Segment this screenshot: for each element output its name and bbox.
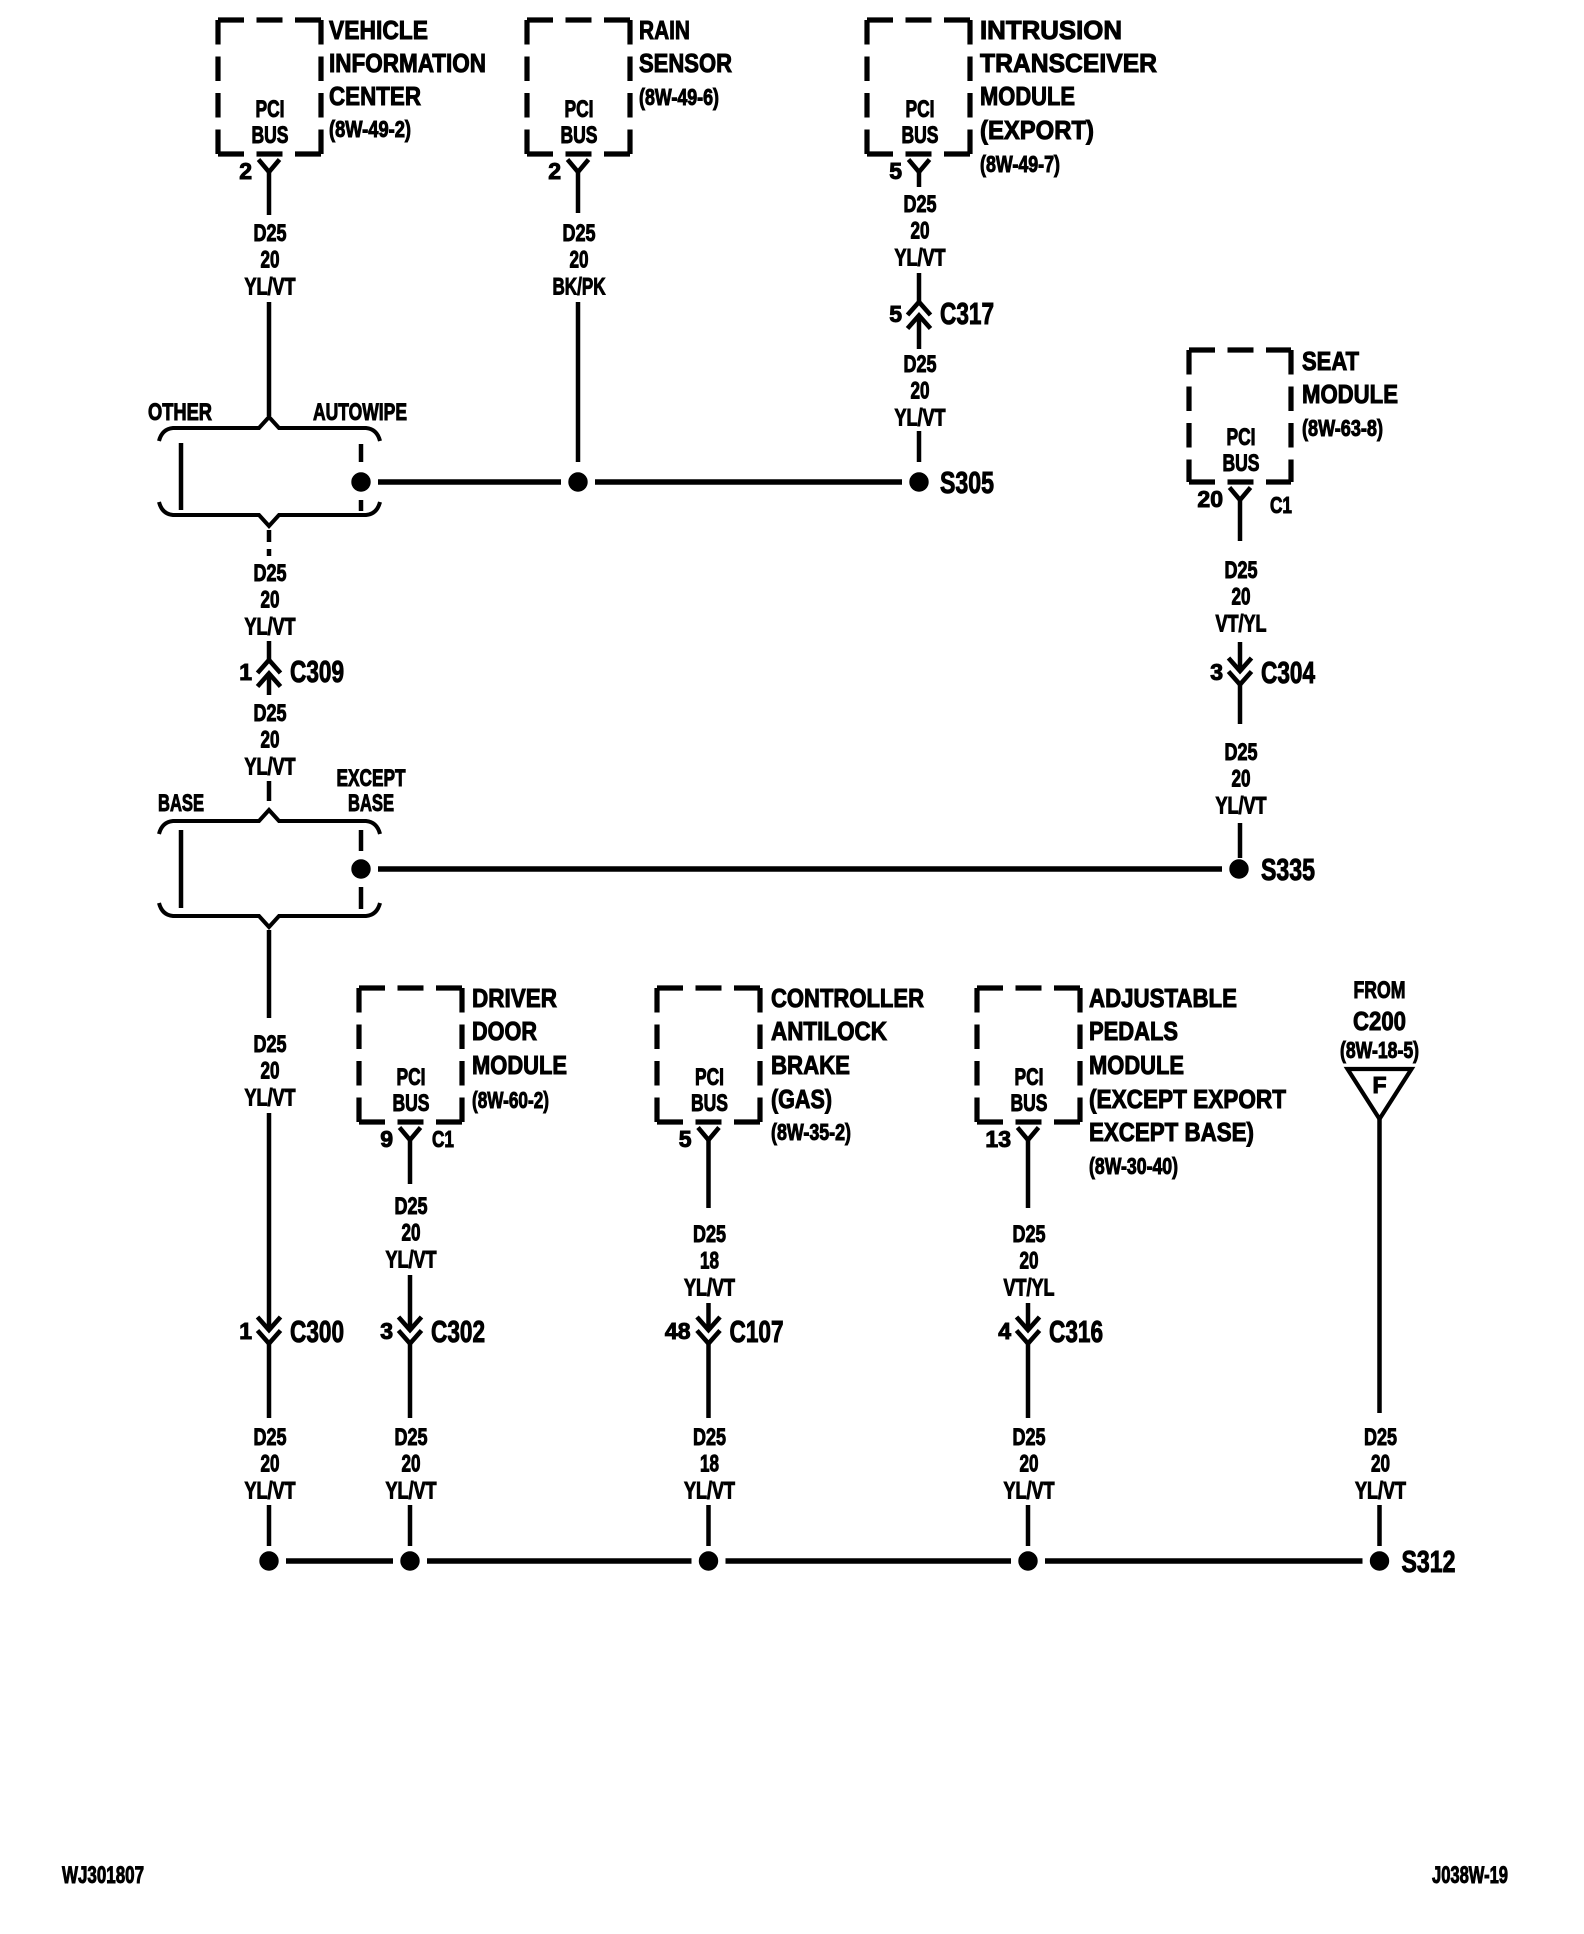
module U6 CONTROLLER ANTILOCK BRAKE (GAS) (8W-35-2) box with PCI BUS (657, 983, 924, 1145)
svg-text:C107: C107 (730, 1314, 784, 1349)
wire label D25 20 VT/YL (above C304) (1216, 557, 1267, 637)
connector Y at U1 pin 2 (259, 160, 280, 173)
svg-text:PCI: PCI (1227, 424, 1256, 451)
svg-text:D25: D25 (254, 700, 287, 727)
svg-text:PCI: PCI (695, 1064, 724, 1091)
svg-text:13: 13 (985, 1126, 1011, 1152)
svg-text:D25: D25 (254, 220, 287, 247)
brace (options split) BASE/EXCEPT BASE top (159, 810, 380, 834)
svg-text:RAIN: RAIN (639, 15, 690, 45)
wire label D25 20 YL/VT (col A bottom) (245, 1424, 296, 1504)
junction dot rain sensor at S305 (569, 473, 587, 491)
module U7 ADJUSTABLE PEDALS MODULE (EXCEPT EXPORT EXCEPT BASE) (8W-30-40) box with PCI BUS (977, 983, 1286, 1179)
wire label D25 20 YL/VT (col A top) (245, 220, 296, 300)
svg-text:MODULE: MODULE (472, 1050, 567, 1080)
wire label D25 20 YL/VT (col E bottom) (386, 1424, 437, 1504)
svg-text:20: 20 (402, 1451, 421, 1478)
svg-text:DOOR: DOOR (472, 1016, 537, 1046)
svg-text:FROM: FROM (1354, 977, 1406, 1004)
svg-text:20: 20 (1020, 1451, 1039, 1478)
svg-text:D25: D25 (904, 191, 937, 218)
wire BASE branch (179, 830, 184, 908)
svg-text:PEDALS: PEDALS (1089, 1016, 1178, 1046)
svg-text:PCI: PCI (397, 1064, 426, 1091)
wire stem from U4 (1238, 500, 1243, 541)
svg-text:20: 20 (1020, 1248, 1039, 1275)
label C1 (seat module) (1270, 492, 1292, 518)
module U2 RAIN SENSOR (8W-49-6) box with PCI BUS (527, 15, 732, 154)
svg-text:OTHER: OTHER (148, 399, 212, 426)
splice dot S305 (910, 473, 928, 491)
svg-text:YL/VT: YL/VT (245, 1477, 296, 1504)
svg-text:INFORMATION: INFORMATION (329, 48, 486, 78)
svg-text:4: 4 (998, 1318, 1011, 1344)
pin 3 of C302 (380, 1318, 393, 1344)
svg-text:20: 20 (261, 1451, 280, 1478)
wire stem from U7 (1026, 1140, 1031, 1208)
svg-text:2: 2 (548, 158, 561, 184)
junction dot EXCEPT BASE to S335 (352, 860, 370, 878)
svg-text:9: 9 (380, 1126, 393, 1152)
svg-text:5: 5 (889, 158, 902, 184)
label AUTOWIPE (313, 399, 407, 426)
svg-text:S305: S305 (940, 465, 994, 500)
svg-text:C316: C316 (1049, 1314, 1103, 1349)
svg-text:YL/VT: YL/VT (895, 244, 946, 271)
junction dot col A at S312 (260, 1552, 278, 1570)
wire into C302 (408, 1275, 413, 1330)
wire label D25 20 YL/VT (below C309) (245, 700, 296, 780)
svg-text:C1: C1 (1270, 492, 1292, 518)
svg-text:ADJUSTABLE: ADJUSTABLE (1089, 983, 1237, 1013)
wire EXCEPT BASE branch (dashed) (359, 830, 364, 909)
svg-text:C200: C200 (1353, 1006, 1406, 1036)
junction dot AUTOWIPE to S305 (352, 473, 370, 491)
pin 1 of C300 (239, 1318, 252, 1344)
wire stub to S312 (267, 1505, 272, 1546)
svg-text:20: 20 (911, 218, 930, 245)
connector C317 (double chevron up) (908, 302, 931, 329)
connector C302 (double chevron down) (399, 1317, 422, 1344)
connector C309 (double chevron up) (258, 660, 281, 687)
svg-text:YL/VT: YL/VT (386, 1477, 437, 1504)
svg-text:20: 20 (1232, 584, 1251, 611)
pin 13 of U7 (985, 1126, 1011, 1152)
svg-text:BUS: BUS (561, 122, 598, 149)
svg-text:SEAT: SEAT (1302, 346, 1359, 376)
bus wire S335 (378, 866, 1222, 872)
brace (options split) OTHER/AUTOWIPE top (159, 417, 380, 441)
svg-text:D25: D25 (254, 1424, 287, 1451)
wire below C316 (1026, 1344, 1031, 1418)
svg-text:BASE: BASE (158, 790, 204, 817)
svg-text:S312: S312 (1402, 1544, 1456, 1579)
pin 48 of C107 (665, 1318, 691, 1344)
svg-text:YL/VT: YL/VT (684, 1477, 735, 1504)
footer drawing number WJ301807 (62, 1862, 144, 1889)
wire below C317 (917, 317, 922, 349)
svg-text:BUS: BUS (1223, 450, 1260, 477)
wire into C309 (267, 641, 272, 660)
svg-text:D25: D25 (904, 351, 937, 378)
svg-text:D25: D25 (395, 1424, 428, 1451)
svg-text:3: 3 (1210, 659, 1223, 685)
wire stem from U3 (917, 172, 922, 187)
wire below C300 (267, 1344, 272, 1418)
svg-text:VT/YL: VT/YL (1004, 1274, 1055, 1301)
wire label D25 18 YL/VT (above C107) (684, 1221, 735, 1301)
svg-text:F: F (1372, 1072, 1386, 1098)
svg-text:BUS: BUS (252, 122, 289, 149)
module U5 DRIVER DOOR MODULE (8W-60-2) box with PCI BUS (359, 983, 567, 1122)
svg-text:MODULE: MODULE (1302, 379, 1398, 409)
svg-text:D25: D25 (1013, 1221, 1046, 1248)
wire into C316 (1026, 1303, 1031, 1330)
module U1 VEHICLE INFORMATION CENTER (8W-49-2) box with PCI BUS (218, 15, 486, 154)
wire into S335 (1238, 823, 1243, 858)
svg-text:BRAKE: BRAKE (771, 1050, 850, 1080)
label BASE (158, 790, 204, 817)
svg-text:BK/PK: BK/PK (553, 273, 606, 300)
splice dot S312 (1370, 1552, 1388, 1570)
wire from C200 triangle (1377, 1119, 1382, 1413)
off-page reference FROM C200 (8W-18-5) (1340, 977, 1419, 1063)
svg-text:(GAS): (GAS) (771, 1084, 832, 1114)
wire stem from U5 (408, 1140, 413, 1184)
label C317 (940, 296, 994, 331)
splice dot S335 (1230, 860, 1248, 878)
connector C300 (double chevron down) (258, 1317, 281, 1344)
wire below C302 (408, 1344, 413, 1418)
svg-text:18: 18 (700, 1451, 719, 1478)
svg-text:D25: D25 (254, 560, 287, 587)
svg-text:2: 2 (239, 158, 252, 184)
svg-text:PCI: PCI (565, 96, 594, 123)
svg-text:D25: D25 (1225, 557, 1258, 584)
wire stub to S312 (col H) (1377, 1505, 1382, 1546)
dashed stub below brace (267, 530, 272, 556)
svg-text:YL/VT: YL/VT (245, 753, 296, 780)
svg-text:D25: D25 (693, 1221, 726, 1248)
label C304 (1261, 655, 1316, 690)
module U3 INTRUSION TRANSCEIVER MODULE (EXPORT) (8W-49-7) box with PCI BUS (867, 15, 1157, 177)
svg-text:(8W-49-2): (8W-49-2) (329, 116, 411, 142)
svg-text:INTRUSION: INTRUSION (980, 15, 1122, 45)
label S305 (940, 465, 994, 500)
label S335 (1261, 852, 1315, 887)
svg-text:D25: D25 (395, 1193, 428, 1220)
pin 2 of U1 (239, 158, 252, 184)
wire stub to S312 (col G) (1026, 1505, 1031, 1546)
svg-text:CONTROLLER: CONTROLLER (771, 983, 924, 1013)
svg-text:20: 20 (261, 727, 280, 754)
label C300 (290, 1314, 344, 1349)
svg-text:C302: C302 (431, 1314, 485, 1349)
svg-text:(8W-18-5): (8W-18-5) (1340, 1037, 1419, 1063)
svg-text:YL/VT: YL/VT (245, 273, 296, 300)
svg-text:18: 18 (700, 1248, 719, 1275)
brace merge bottom (OTHER/AUTOWIPE) (159, 502, 380, 526)
pin 1 of C309 (239, 659, 252, 685)
wire into C300 (267, 1113, 272, 1330)
svg-text:TRANSCEIVER: TRANSCEIVER (980, 48, 1157, 78)
wire into C317 (917, 273, 922, 302)
svg-text:YL/VT: YL/VT (245, 613, 296, 640)
pin 5 of U3 (889, 158, 902, 184)
svg-text:(EXPORT): (EXPORT) (980, 115, 1094, 145)
pin 9 of U5 (380, 1126, 393, 1152)
pin 2 of U2 (548, 158, 561, 184)
svg-text:20: 20 (1371, 1451, 1390, 1478)
connector C107 (double chevron down) (697, 1317, 720, 1344)
wire label D25 20 YL/VT (below C317) (895, 351, 946, 431)
svg-text:DRIVER: DRIVER (472, 983, 557, 1013)
label C1 (driver door) (432, 1126, 454, 1152)
wire stem from U6 (706, 1140, 711, 1208)
connector triangle F (from C200) (1348, 1069, 1412, 1119)
svg-text:5: 5 (679, 1126, 692, 1152)
wire into S305 (917, 431, 922, 462)
label EXCEPT BASE (337, 765, 406, 817)
svg-text:ANTILOCK: ANTILOCK (771, 1016, 887, 1046)
wire below C107 (706, 1344, 711, 1418)
label C316 (1049, 1314, 1103, 1349)
svg-text:EXCEPT BASE): EXCEPT BASE) (1089, 1117, 1254, 1147)
wire label D25 20 VT/YL (above C316) (1004, 1221, 1055, 1301)
svg-text:YL/VT: YL/VT (245, 1084, 296, 1111)
svg-text:YL/VT: YL/VT (1004, 1477, 1055, 1504)
wire stub to S312 (col E) (408, 1505, 413, 1546)
svg-text:BUS: BUS (393, 1090, 430, 1117)
wire AUTOWIPE branch (dashed) (359, 444, 364, 511)
svg-text:20: 20 (261, 1058, 280, 1085)
wire below BASE brace (267, 930, 272, 1018)
pin 20 of U4 (1197, 486, 1223, 512)
bus wire S305 (378, 479, 902, 485)
svg-text:C300: C300 (290, 1314, 344, 1349)
wire label D25 20 YL/VT (col G bottom) (1004, 1424, 1055, 1504)
connector Y at U2 pin 2 (568, 160, 589, 173)
svg-text:D25: D25 (1225, 739, 1258, 766)
wire label D25 20 YL/VT (above C317) (895, 191, 946, 271)
svg-text:20: 20 (261, 587, 280, 614)
svg-text:1: 1 (239, 659, 252, 685)
svg-text:(8W-35-2): (8W-35-2) (771, 1119, 851, 1145)
svg-text:MODULE: MODULE (980, 81, 1075, 111)
label OTHER (148, 399, 212, 426)
svg-text:YL/VT: YL/VT (386, 1246, 437, 1273)
wire stem from U2 (576, 172, 581, 213)
svg-text:C317: C317 (940, 296, 994, 331)
svg-text:(EXCEPT EXPORT: (EXCEPT EXPORT (1089, 1084, 1286, 1114)
svg-text:20: 20 (911, 378, 930, 405)
pin 5 of C317 (889, 301, 902, 327)
wire label D25 20 BK/PK (553, 220, 606, 300)
footer sheet number J038W-19 (1432, 1862, 1508, 1889)
svg-text:D25: D25 (563, 220, 596, 247)
svg-text:C309: C309 (290, 654, 344, 689)
pin 3 of C304 (1210, 659, 1223, 685)
svg-text:VT/YL: VT/YL (1216, 610, 1267, 637)
svg-text:(8W-60-2): (8W-60-2) (472, 1087, 549, 1113)
label C302 (431, 1314, 485, 1349)
svg-text:D25: D25 (1013, 1424, 1046, 1451)
svg-text:YL/VT: YL/VT (1216, 792, 1267, 819)
pin 4 of C316 (998, 1318, 1011, 1344)
svg-text:3: 3 (380, 1318, 393, 1344)
label C309 (290, 654, 344, 689)
svg-text:20: 20 (1232, 766, 1251, 793)
svg-text:20: 20 (1197, 486, 1223, 512)
svg-text:CENTER: CENTER (329, 81, 421, 111)
svg-text:(8W-49-7): (8W-49-7) (980, 151, 1060, 177)
wire label D25 20 YL/VT (above C302) (386, 1193, 437, 1273)
svg-text:PCI: PCI (256, 96, 285, 123)
svg-text:5: 5 (889, 301, 902, 327)
svg-text:YL/VT: YL/VT (895, 404, 946, 431)
junction dot col G at S312 (1019, 1552, 1037, 1570)
svg-text:(8W-30-40): (8W-30-40) (1089, 1153, 1178, 1179)
wire label D25 20 YL/VT (below C304) (1216, 739, 1267, 819)
svg-text:PCI: PCI (1015, 1064, 1044, 1091)
module U4 SEAT MODULE (8W-63-8) box with PCI BUS (1189, 346, 1398, 482)
svg-text:S335: S335 (1261, 852, 1315, 887)
svg-text:BASE: BASE (348, 790, 394, 817)
svg-text:48: 48 (665, 1318, 691, 1344)
connector Y at U4 pin 20, label C1 (1230, 488, 1251, 501)
svg-text:20: 20 (570, 247, 589, 274)
connector Y at U6 pin 5 (698, 1128, 719, 1141)
svg-text:20: 20 (261, 247, 280, 274)
wire label D25 20 YL/VT (col H bottom) (1355, 1424, 1406, 1504)
wire into C107 (706, 1303, 711, 1330)
svg-text:(8W-49-6): (8W-49-6) (639, 84, 719, 110)
svg-text:YL/VT: YL/VT (684, 1274, 735, 1301)
connector Y at U3 pin 5 (909, 160, 930, 173)
wire into BASE brace (267, 781, 272, 801)
bus wire S312 (286, 1558, 1363, 1564)
wire from label to OTHER/AUTOWIPE brace (267, 302, 272, 416)
wire from rain sensor to S305 (576, 302, 581, 462)
connector Y at U7 pin 13 (1018, 1128, 1039, 1141)
pin 5 of U6 (679, 1126, 692, 1152)
connector C316 (double chevron down) (1017, 1317, 1040, 1344)
wire into C304 (1238, 642, 1243, 671)
svg-text:EXCEPT: EXCEPT (337, 765, 406, 792)
svg-text:SENSOR: SENSOR (639, 48, 732, 78)
svg-text:YL/VT: YL/VT (1355, 1477, 1406, 1504)
wire label D25 18 YL/VT (col F bottom) (684, 1424, 735, 1504)
svg-text:D25: D25 (693, 1424, 726, 1451)
wire label D25 20 YL/VT (above C300) (245, 1031, 296, 1111)
wire below C304 (1238, 685, 1243, 724)
svg-text:D25: D25 (1364, 1424, 1397, 1451)
label S312 (1402, 1544, 1456, 1579)
svg-text:PCI: PCI (906, 96, 935, 123)
svg-text:WJ301807: WJ301807 (62, 1862, 144, 1889)
connector C304 (double chevron down) (1229, 658, 1252, 685)
wire below C309 (267, 675, 272, 695)
wire stem from U1 (267, 172, 272, 215)
svg-text:MODULE: MODULE (1089, 1050, 1184, 1080)
svg-text:J038W-19: J038W-19 (1432, 1862, 1508, 1889)
svg-text:D25: D25 (254, 1031, 287, 1058)
wire OTHER branch (179, 443, 184, 510)
svg-text:BUS: BUS (902, 122, 939, 149)
svg-text:BUS: BUS (691, 1090, 728, 1117)
svg-text:20: 20 (402, 1220, 421, 1247)
wire stub to S312 (col F) (706, 1505, 711, 1546)
svg-text:1: 1 (239, 1318, 252, 1344)
label C107 (730, 1314, 784, 1349)
brace merge bottom (BASE/EXCEPT BASE) (159, 903, 380, 927)
connector Y at U5 pin 9 (400, 1128, 421, 1141)
junction dot col F at S312 (699, 1552, 717, 1570)
wire label D25 20 YL/VT (above C309) (245, 560, 296, 640)
junction dot col E at S312 (401, 1552, 419, 1570)
svg-text:AUTOWIPE: AUTOWIPE (313, 399, 407, 426)
svg-text:(8W-63-8): (8W-63-8) (1302, 415, 1383, 441)
svg-text:C304: C304 (1261, 655, 1316, 690)
svg-text:VEHICLE: VEHICLE (329, 15, 428, 45)
svg-text:BUS: BUS (1011, 1090, 1048, 1117)
svg-text:C1: C1 (432, 1126, 454, 1152)
